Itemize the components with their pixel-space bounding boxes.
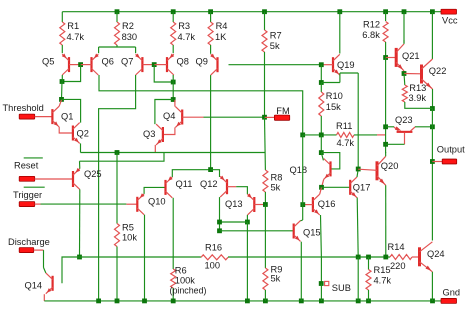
lead Q5 base [69, 64, 81, 66]
svg-text:Reset: Reset [14, 160, 39, 170]
svg-text:Q8: Q8 [177, 56, 189, 66]
wire emitter line to Q25 collector line [80, 153, 165, 162]
svg-text:830: 830 [122, 32, 138, 42]
svg-text:R4: R4 [216, 21, 228, 31]
wire Q17 collector line [357, 73, 359, 169]
wire R4 top [210, 12, 212, 22]
svg-text:Q14: Q14 [25, 280, 43, 290]
wire R6 bottom [172, 288, 174, 301]
wire R3 bottom to Q8 emitter [172, 45, 174, 53]
resistor R15 [366, 270, 371, 290]
svg-text:R8: R8 [271, 172, 283, 182]
junction on Q12 collector [217, 220, 222, 225]
wire Q19 base down [320, 65, 322, 83]
wire R2 top [116, 12, 118, 22]
lead FM [265, 116, 275, 118]
wire R12 bottom [385, 42, 387, 58]
wire Q25 emitter down [79, 189, 81, 257]
svg-text:4.7k: 4.7k [337, 138, 355, 148]
junction Q18 node [319, 150, 324, 155]
svg-text:Discharge: Discharge [8, 237, 50, 247]
lead Q4 base [182, 116, 203, 118]
svg-text:R16: R16 [205, 242, 222, 252]
resistor R14 [390, 255, 412, 260]
transistor Q4 [175, 107, 183, 128]
wire Q16 emitter to SUB [320, 258, 322, 284]
wire output line [431, 109, 433, 241]
transistor Q24 [418, 242, 432, 272]
wire Q2 emitter down [80, 143, 82, 152]
svg-text:R5: R5 [122, 223, 134, 233]
wire Q15 base wire [220, 230, 294, 232]
svg-text:Q18: Q18 [290, 165, 308, 175]
wire R12 top [385, 12, 387, 21]
wire Q8 collector down [172, 75, 174, 82]
wire Q12 collector down [219, 197, 221, 231]
svg-text:R12: R12 [363, 19, 380, 29]
wire R1 bottom to Q5 emitter [61, 45, 63, 53]
junction R11 left [300, 133, 305, 138]
svg-text:Gnd: Gnd [443, 287, 461, 297]
lead R11 right [377, 134, 386, 136]
svg-text:Q15: Q15 [303, 227, 321, 237]
junction Q23 base node [383, 142, 388, 147]
svg-text:Q24: Q24 [427, 249, 445, 259]
wire base-drive left [80, 256, 202, 258]
wire Q17 emitter down [357, 198, 358, 258]
transistor Q22 [420, 59, 433, 89]
wire comparator emitters [81, 152, 266, 154]
lead Q12 base [227, 186, 236, 188]
lead Q1 emitter to Q2 base [59, 127, 73, 133]
wire Q5 collector down [61, 75, 63, 82]
svg-text:Q1: Q1 [61, 111, 73, 121]
svg-text:Threshold: Threshold [3, 103, 44, 113]
resistor R5 [115, 224, 120, 247]
svg-text:4.7k: 4.7k [178, 32, 196, 42]
svg-text:Q12: Q12 [200, 179, 218, 189]
junction Q8 collector node [171, 80, 176, 85]
wire Q7/Q8 base tie to Q8 collector [154, 65, 173, 82]
wire Q19 emitter to Q17 collector [340, 72, 358, 74]
junction top rail R4 [208, 9, 213, 14]
resistor R1 [60, 22, 65, 45]
wire R5 bottom [116, 247, 118, 301]
svg-text:6.8k: 6.8k [362, 30, 380, 40]
transistor Q3 [156, 124, 164, 145]
junction rail Q24 emitter [430, 299, 435, 304]
svg-text:5k: 5k [270, 41, 280, 51]
transistor Q6 [90, 54, 98, 76]
lead Q22 base [404, 73, 422, 75]
port Threshold [19, 114, 35, 119]
junction rail R5 [115, 299, 120, 304]
svg-text:Q10: Q10 [148, 196, 166, 206]
transistor Q14 [46, 273, 54, 294]
lead Threshold to Q1 base [35, 116, 53, 118]
wire Q20 emitter down [385, 185, 387, 257]
lead Q16 base [303, 204, 313, 206]
transistor Q20 [376, 156, 386, 185]
svg-text:(pinched): (pinched) [170, 286, 207, 296]
svg-text:Trigger: Trigger [13, 190, 42, 200]
svg-text:15k: 15k [326, 102, 341, 112]
svg-text:R6: R6 [175, 266, 187, 276]
resistor R6 [171, 269, 176, 288]
junction rail Q15 emitter [299, 299, 304, 304]
wire Q23 emitter left [386, 126, 394, 128]
wire Q3 emitter down [154, 145, 156, 153]
junction Q17 emitter [356, 255, 361, 260]
svg-text:3.9k: 3.9k [409, 93, 427, 103]
junction SUB [319, 281, 324, 286]
transistor Q23 [394, 126, 415, 144]
resistor R12 [383, 22, 388, 43]
svg-text:Q13: Q13 [225, 199, 243, 209]
junction Q21 emitter Q22 base R13 [402, 71, 407, 76]
wire Q16 emitter down [320, 215, 323, 258]
wire Q11 collector down to R6 [172, 198, 174, 269]
wire Q1 node to Q2 collector [62, 99, 81, 122]
wire Q14 base to base-drive wire [62, 257, 80, 283]
junction rail Q7 collector [96, 299, 101, 304]
svg-text:Q22: Q22 [429, 66, 447, 76]
transistor Q13 [247, 193, 255, 215]
svg-text:Q21: Q21 [402, 51, 420, 61]
junction R8 R9 Q13 base [263, 202, 268, 207]
junction Q9 collector node [208, 167, 213, 172]
lead Q20 base [358, 169, 377, 170]
junction top rail R3 [171, 9, 176, 14]
wire Q6 collector to comparator output node [99, 75, 303, 135]
wire R13 bottom [405, 102, 433, 108]
wire Q24 emitter down [431, 272, 433, 301]
resistor R7 [262, 30, 267, 52]
junction Q7 Q8 bases [152, 62, 157, 67]
junction R5 tap [115, 150, 120, 155]
transistor Q12 [220, 176, 228, 198]
wire R9 bottom [264, 290, 266, 301]
wire Q25 collector up [79, 161, 81, 168]
transistor Q7 [135, 54, 143, 76]
svg-text:Q11: Q11 [176, 179, 193, 189]
wire Q22 collector [431, 12, 433, 59]
wire Q13 collector to ground [246, 222, 248, 301]
port Gnd [441, 298, 457, 303]
wire Q23 base left [386, 143, 405, 145]
resistor R8 [263, 170, 268, 192]
transistor Q18 [324, 159, 332, 180]
wire R11 right [354, 134, 377, 136]
junction R10 R11 [319, 133, 324, 138]
transistor Q19 [332, 54, 340, 75]
svg-text:10k: 10k [122, 233, 137, 243]
svg-text:Vcc: Vcc [442, 16, 458, 26]
wire Q19 emitter tie [321, 82, 340, 84]
svg-text:R3: R3 [178, 21, 190, 31]
junction rail R15 [366, 299, 371, 304]
svg-text:Q20: Q20 [381, 161, 399, 171]
junction Q25 emitter on base-drive wire [77, 255, 82, 260]
lead Q21 base [386, 57, 397, 59]
lead Q4 emitter to Q3 base [163, 127, 175, 134]
svg-text:1K: 1K [215, 32, 227, 42]
lead Trigger [35, 203, 41, 205]
junction Q4 collector node [171, 97, 176, 102]
wire Q20 collector line [385, 58, 387, 154]
resistor R16 [201, 255, 228, 260]
wire Q7 emitter stub [135, 47, 137, 53]
junction Q20 emitter [383, 255, 388, 260]
svg-text:Q17: Q17 [353, 182, 371, 192]
junction R15 top [366, 255, 371, 260]
svg-text:Q19: Q19 [337, 60, 355, 70]
wire Q12 emitter stair [211, 170, 220, 177]
port Output [442, 159, 457, 164]
resistor R9 [263, 268, 268, 290]
junction rail Q17 emitter [356, 299, 361, 304]
lead Q7 base [142, 64, 154, 66]
svg-text:SUB: SUB [332, 283, 351, 293]
wire Q9 collector down [210, 75, 212, 170]
lead Q8 base [154, 64, 167, 66]
junction Q22 emitter R13 bottom [430, 106, 435, 111]
resistor R11 [337, 132, 354, 137]
junction top rail Q21 collector [402, 9, 407, 14]
svg-text:R14: R14 [388, 242, 405, 252]
svg-text:Q6: Q6 [102, 56, 114, 66]
svg-text:FM: FM [276, 106, 289, 116]
resistor R3 [171, 22, 176, 45]
junction Q1 collector node [59, 97, 64, 102]
junction Q13 collector [245, 220, 250, 225]
pin SUB square [325, 281, 329, 285]
wire Q10 collector down [144, 215, 146, 301]
wire Q16 collector up [320, 187, 322, 194]
lead R14 to Q24 base [412, 256, 420, 258]
wire Q18 emitter down [322, 179, 324, 187]
port Vcc [441, 9, 457, 14]
wire Trigger to Q10 base [41, 203, 127, 205]
wire node down to Q4 node [172, 82, 174, 100]
port Reset [19, 176, 35, 181]
junction R12 Q21 base [383, 55, 388, 60]
junction Q16 base [300, 202, 305, 207]
svg-text:Q4: Q4 [163, 111, 175, 121]
wire Q23 collector right [415, 126, 432, 128]
svg-text:R7: R7 [270, 30, 282, 40]
svg-text:220: 220 [390, 261, 406, 271]
wire Q13 collector down [246, 215, 248, 222]
wire R8 top [264, 117, 267, 170]
port FM [274, 115, 289, 120]
overline Trigger [24, 186, 45, 188]
svg-text:Q9: Q9 [196, 56, 208, 66]
junction top rail R2 [115, 9, 120, 14]
wire Q19 collector [339, 12, 341, 54]
wire Discharge down [43, 250, 45, 267]
svg-text:Output: Output [437, 144, 465, 154]
lead Q13 base [254, 204, 265, 206]
resistor R4 [208, 22, 213, 45]
svg-text:Q23: Q23 [395, 115, 413, 125]
transistor Q11 [164, 176, 172, 198]
wire R2 bottom [116, 45, 118, 47]
svg-text:Q5: Q5 [42, 56, 54, 66]
junction FM node [262, 115, 267, 120]
wire Q21 emitter down [403, 71, 405, 74]
wire R9 top [264, 205, 266, 269]
wire R1 top [61, 12, 63, 22]
transistor Q16 [312, 194, 320, 215]
resistor R13 [402, 85, 407, 102]
junction Q23 emitter node [383, 124, 388, 129]
wire Q18 base wrap [321, 153, 340, 169]
transistor Q9 [210, 54, 218, 76]
wire R15 bottom [368, 290, 370, 301]
wire Q4 base to FM node [204, 116, 265, 118]
wire Q21 collector [403, 12, 405, 43]
svg-text:4.7k: 4.7k [374, 275, 392, 285]
lead Output [432, 161, 442, 163]
lead Q10 base [126, 203, 137, 205]
wire R15 top [368, 257, 370, 270]
junction Q18 emitter Q16 collector [319, 185, 324, 190]
wire Q12/Q13 collector tie [220, 221, 248, 223]
junction Q17 Q19 Q20 [356, 167, 361, 172]
svg-text:R10: R10 [326, 91, 343, 101]
junction top rail R7 [262, 9, 267, 14]
junction Q5 Q6 bases [78, 62, 83, 67]
svg-text:Q3: Q3 [143, 129, 155, 139]
wire R8 bottom [264, 192, 266, 205]
wire Q20 collector up [385, 152, 387, 156]
lead Reset to Q25 base [35, 178, 73, 180]
svg-text:R1: R1 [67, 21, 79, 31]
wire Q4 node to Q3 collector [155, 100, 173, 125]
junction Q19 base [319, 62, 324, 67]
transistor Q10 [136, 193, 144, 215]
wire Q14 emitter to rail [43, 294, 45, 301]
port Trigger [19, 202, 35, 207]
transistor Q25 [72, 168, 80, 190]
junction Q23 collector output line [430, 124, 435, 129]
junction Q5 collector node [60, 79, 65, 84]
svg-text:100: 100 [205, 260, 221, 270]
wire Q11 emitter up [172, 170, 210, 177]
wire ground rail [44, 300, 441, 302]
wire R11 left [303, 134, 337, 136]
wire base-drive mid [228, 256, 390, 258]
wire R10 top [320, 83, 322, 93]
lead Q19 base [321, 64, 333, 66]
wire Q12 base to Q13 emitter [236, 187, 247, 195]
svg-text:5k: 5k [271, 273, 281, 283]
wire Q17 collector up [357, 169, 358, 177]
svg-text:R15: R15 [374, 265, 391, 275]
svg-text:Q7: Q7 [121, 56, 133, 66]
transistor Q2 [72, 123, 80, 144]
junction Output port tap [430, 159, 435, 164]
wire R7 top [264, 12, 266, 30]
svg-text:Q25: Q25 [84, 169, 102, 179]
wire Q21 collector up [403, 40, 405, 44]
wire comparator node down [302, 135, 304, 220]
resistor R10 [319, 92, 324, 116]
resistor R2 [115, 22, 120, 45]
wire node down to Q1 node [61, 82, 64, 100]
wire R5 top [116, 153, 118, 224]
junction top rail R12 [383, 9, 388, 14]
wire Q5/Q6 base tie to Q5 collector [62, 65, 81, 82]
lead Q6 base [81, 64, 92, 66]
wire Vcc top rail [62, 11, 441, 13]
wire Q6 emitter stub [98, 47, 100, 53]
wire Q7 collector to ground [99, 75, 136, 301]
transistor Q5 [62, 54, 70, 76]
junction top rail Q22 collector [430, 9, 435, 14]
junction rail Q10 emitter [142, 299, 147, 304]
junction rail R6 [171, 299, 176, 304]
transistor Q15 [293, 221, 301, 242]
wire R13 top [403, 74, 406, 86]
wire Q18 collector up [321, 153, 323, 161]
wire Q6/Q7 emitter rail [99, 46, 136, 48]
junction top rail Q19 collector [337, 9, 342, 14]
wire Q14 collector diag join [44, 268, 46, 273]
junction Q12 collector to Q15 base wire [217, 228, 222, 233]
svg-text:Q2: Q2 [77, 129, 89, 139]
transistor Q17 [349, 177, 357, 198]
transistor Q1 [51, 106, 59, 127]
svg-text:5k: 5k [271, 182, 281, 192]
wire R4 bottom to Q9 emitter [210, 45, 212, 54]
wire Q15 collector up [301, 219, 303, 222]
svg-text:R11: R11 [336, 121, 352, 131]
lead Q1 collector [59, 100, 61, 106]
junction rail Q16 emitter [319, 299, 324, 304]
svg-text:Q16: Q16 [318, 199, 336, 209]
wire R7 bottom to FM node [264, 52, 266, 117]
wire Q17 emitter to rail [357, 257, 359, 301]
lead Q4 collector up [174, 100, 176, 107]
svg-text:100k: 100k [175, 276, 196, 286]
wire Q17 base wire [322, 186, 351, 188]
wire R10 bottom [320, 116, 322, 135]
overline Reset [24, 157, 43, 159]
svg-text:4.7k: 4.7k [67, 32, 85, 42]
wire Q19 emitter vert [339, 73, 341, 83]
junction rail Q13 collector [245, 299, 250, 304]
transistor Q21 [395, 44, 404, 71]
junction rail R9 [263, 299, 268, 304]
wire R10 node down [320, 135, 322, 153]
svg-text:R13: R13 [409, 83, 426, 93]
wire Q15 emitter down [300, 242, 302, 301]
wire Q10 emitter to Q11 base [144, 187, 165, 194]
wire R3 top [172, 12, 174, 22]
port Discharge [19, 248, 34, 253]
lead Discharge [34, 249, 44, 251]
svg-text:R2: R2 [122, 21, 134, 31]
wire Q22 emitter down [432, 89, 434, 109]
wire SUB to rail [320, 284, 322, 301]
wire Q9 base to Q19 base [229, 64, 322, 66]
transistor Q8 [166, 54, 174, 76]
junction Q19 emitter R10 [319, 80, 324, 85]
